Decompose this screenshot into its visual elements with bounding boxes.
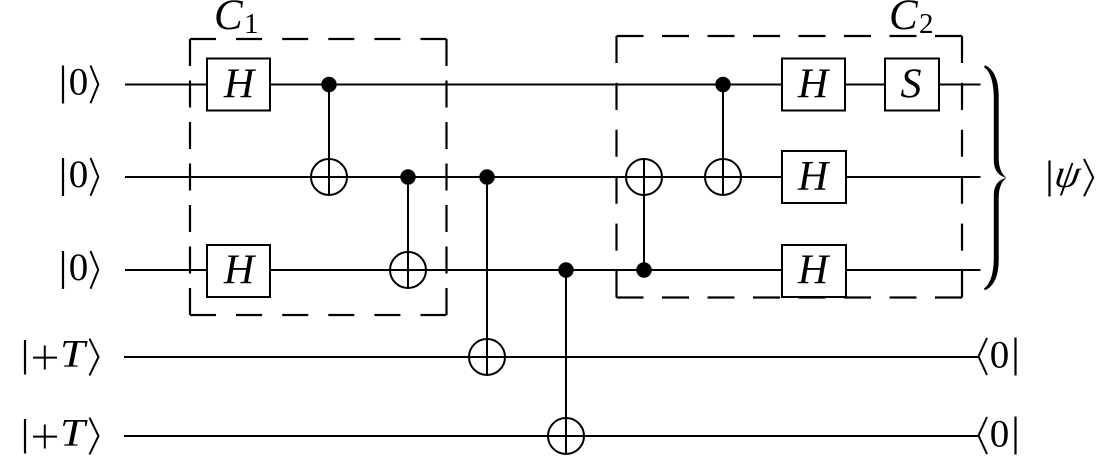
svg-text:S: S [901, 62, 922, 108]
svg-text:0: 0 [990, 334, 1010, 377]
svg-text:C: C [889, 0, 919, 39]
svg-text:T: T [60, 333, 88, 376]
svg-text:0: 0 [69, 153, 89, 196]
svg-text:H: H [797, 62, 831, 108]
svg-text:0: 0 [69, 61, 89, 104]
svg-text:0: 0 [69, 246, 89, 289]
svg-text:H: H [223, 248, 257, 294]
svg-text:C: C [214, 0, 244, 39]
svg-text:H: H [223, 62, 257, 108]
svg-text:0: 0 [990, 413, 1010, 456]
svg-text:1: 1 [244, 8, 259, 40]
svg-text:H: H [797, 248, 831, 294]
svg-text:2: 2 [919, 8, 934, 40]
svg-text:T: T [60, 412, 88, 455]
svg-text:H: H [797, 154, 831, 200]
